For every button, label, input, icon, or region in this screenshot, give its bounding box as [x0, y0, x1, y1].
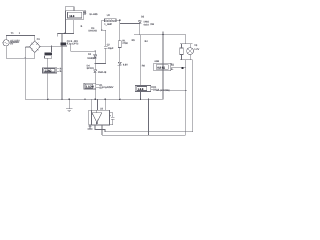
meter U1 (top box)	[65, 7, 86, 20]
resistor R9 (lamp leg)	[180, 44, 183, 60]
capacitor C1	[44, 46, 52, 58]
module A1 (lower-left box)	[42, 68, 59, 73]
wire A3 out to lamp drop	[156, 90, 186, 92]
D3 labels	[87, 64, 107, 74]
svg-text:0.1µF/50V: 0.1µF/50V	[102, 86, 113, 89]
Q1 labels	[67, 40, 79, 46]
F1 labels	[104, 14, 112, 26]
svg-text:4.6B: 4.6B	[154, 60, 159, 63]
U3 top pins	[92, 99, 106, 110]
svg-text:5V: 5V	[10, 42, 13, 45]
wire branch to D5	[120, 22, 140, 24]
wire C1 to module	[47, 58, 49, 67]
wire Q1 emitter	[71, 44, 96, 51]
node junction meter bus	[64, 33, 66, 35]
wire lamp feed	[185, 35, 187, 44]
capacitor C2	[104, 46, 107, 63]
node junctions on ground rail	[47, 99, 149, 101]
zener Z1	[118, 62, 122, 66]
wire DC rail from bridge	[40, 45, 66, 47]
svg-text:6.8 8Ω: 6.8 8Ω	[157, 66, 165, 69]
diode D5	[138, 20, 141, 35]
svg-text:6.8V: 6.8V	[123, 63, 128, 66]
svg-text:1_AMP: 1_AMP	[104, 23, 112, 26]
wire R6 branch	[139, 35, 141, 86]
D2 labels	[87, 53, 96, 60]
node junction lamp/R8	[185, 90, 186, 91]
node junction sense return	[148, 133, 149, 134]
wire zener to ground rail	[119, 65, 121, 99]
wire A3 to ground rail	[140, 91, 142, 99]
svg-text:4x1A: 4x1A	[143, 23, 149, 26]
svg-text:1.5kΩ: 1.5kΩ	[45, 70, 52, 73]
wire sense return	[148, 99, 150, 135]
diode D4 upper label	[88, 27, 97, 33]
svg-text:1.1ΩW: 1.1ΩW	[86, 86, 95, 89]
C2 labels	[107, 43, 114, 50]
lamp assembly bottom bar	[180, 59, 193, 61]
node junction lamp rail	[162, 33, 164, 35]
node junction Q1 right	[66, 45, 67, 46]
wire U3 out pin B	[95, 125, 105, 132]
wire A2 to ground rail	[94, 89, 96, 99]
fuse F1	[105, 19, 117, 22]
wire R1 branch vertical	[119, 20, 121, 41]
node junction sense/R8	[162, 90, 163, 91]
svg-text:B-: B-	[171, 68, 174, 71]
wire top of AC source	[6, 35, 35, 39]
node junction D2 top	[95, 50, 96, 51]
wire lamp drop	[185, 60, 187, 135]
module A2 (crystal box)	[84, 83, 99, 89]
opto U3 (bottom box)	[89, 110, 110, 125]
D5 labels	[141, 15, 155, 26]
node junction mid	[95, 63, 96, 64]
svg-text:B.1u CPT2: B.1u CPT2	[67, 43, 79, 46]
lamp assembly top bar	[180, 43, 193, 45]
node junction C2 bottom	[105, 63, 106, 64]
svg-text:SP101: SP101	[87, 67, 95, 70]
node junction C2 jog	[101, 29, 102, 30]
U3 NC pin with X	[88, 125, 93, 129]
node junction Q1	[61, 46, 62, 47]
AC value label	[10, 39, 20, 45]
svg-text:10µF: 10µF	[108, 47, 114, 50]
wire U3 out pin C	[101, 125, 103, 135]
bridge rectifier D1	[30, 41, 41, 53]
ground symbol	[66, 99, 72, 111]
wire bottom rail 1	[105, 131, 193, 133]
node junction pin B	[94, 129, 95, 130]
svg-text:1N4148: 1N4148	[88, 30, 97, 33]
wire stub to bridge left	[25, 46, 29, 48]
B1 pin labels	[171, 63, 175, 71]
AC source V1	[3, 40, 9, 46]
wire drop to C2	[102, 20, 106, 46]
A3 stub labels	[153, 86, 157, 91]
svg-text:18.8: 18.8	[69, 15, 75, 18]
module A1 side labels	[60, 68, 64, 74]
wire secondary return vertical	[24, 47, 26, 99]
wire module A1 to ground rail	[47, 73, 49, 99]
module B1 (right box)	[154, 63, 174, 70]
module A3 (lower-right box)	[135, 85, 153, 91]
A3 side labels	[156, 89, 170, 92]
R1 labels	[122, 39, 128, 45]
wire bottom rail 2	[102, 134, 186, 136]
svg-text:1N4007: 1N4007	[87, 57, 96, 60]
capacitor C4 (beside U3)	[110, 113, 115, 125]
diode D3	[94, 63, 97, 83]
wire bridge bottom	[34, 53, 36, 59]
wire regulator output rail	[102, 19, 120, 21]
lamp L1	[187, 44, 194, 60]
wire bridge top	[34, 36, 36, 41]
lamp labels	[194, 44, 199, 51]
node junction C1	[51, 46, 52, 47]
wire B1 to lamp leg	[174, 67, 186, 69]
diode D2	[94, 51, 97, 63]
node junction AC return	[25, 58, 26, 59]
svg-text:2700: 2700	[122, 42, 128, 45]
wire R1 to zener	[119, 48, 121, 63]
node junction B1 wire	[182, 67, 184, 69]
wire right edge drop	[192, 60, 194, 132]
wire sense vertical	[162, 35, 164, 100]
wire U1 pin2 down	[73, 20, 75, 34]
svg-text:SL-H05: SL-H05	[89, 13, 98, 16]
svg-text:1N4148: 1N4148	[98, 71, 107, 74]
wire top-right rail	[134, 34, 186, 36]
wire U1 pin1 down	[64, 20, 66, 34]
U1 pin labels	[84, 10, 87, 15]
wire bottom of AC source	[6, 46, 35, 58]
resistor R1	[118, 41, 121, 48]
svg-text:1.8.8: 1.8.8	[138, 88, 144, 91]
wire meter bus	[57, 33, 74, 36]
transistor Q1	[60, 43, 66, 46]
svg-text:1A: 1A	[156, 89, 159, 92]
wire base vertical	[61, 33, 63, 99]
node junction top rail	[119, 19, 121, 21]
svg-text:1.2V: 1.2V	[194, 48, 199, 51]
ground rail	[25, 98, 163, 100]
wire C2 bottom link	[95, 62, 105, 64]
